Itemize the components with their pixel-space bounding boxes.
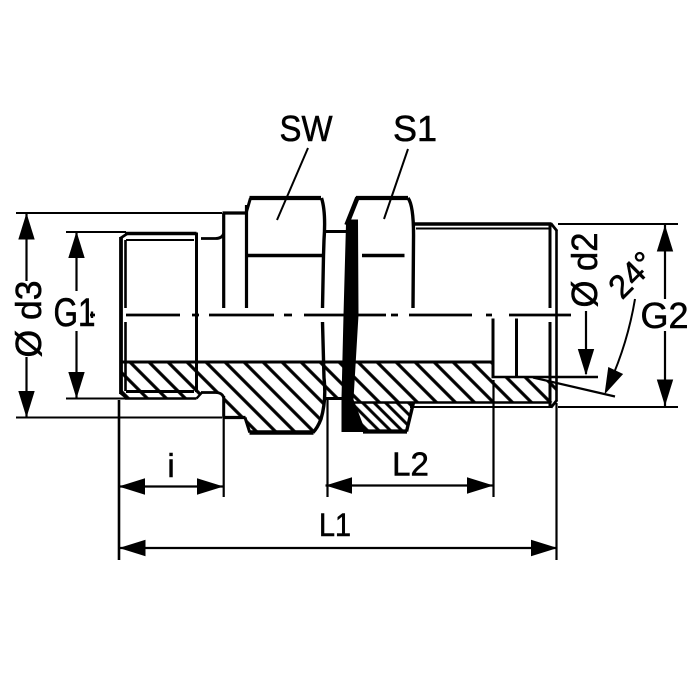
dimension d3 arrow down [18, 391, 34, 418]
thread G2 bottom end chamfer [551, 400, 557, 408]
thread G2 top end chamfer [551, 224, 557, 232]
dimension L1 line [119, 547, 558, 549]
dimension L1 extension right [555, 403, 557, 560]
leader S1 [384, 149, 408, 219]
thread G1 crest bottom [125, 397, 197, 399]
right end face [555, 230, 558, 401]
collar top edge [223, 211, 248, 214]
dimension i extension left [118, 400, 121, 560]
neck between hexes bottom [326, 397, 343, 400]
thread G1 runout chamfer bottom [197, 393, 203, 399]
thread G2 crest bottom [410, 406, 552, 408]
thread G1 crest top [125, 232, 197, 235]
hex SW left boundary [245, 205, 248, 308]
dimension d3 line [25, 213, 27, 418]
dimension G2 extension bottom [558, 406, 678, 408]
collar left face lower [222, 396, 225, 418]
nut S1 right edge lower [407, 403, 414, 432]
dimension d3 extension top [16, 212, 222, 214]
dimension i arrow left [119, 478, 146, 494]
svg-text:L1: L1 [319, 507, 351, 543]
nut S1 cone gap wedge [342, 220, 365, 433]
centerline start tick [91, 312, 93, 319]
dimension L2 arrow right [467, 477, 494, 493]
svg-text:S1: S1 [393, 108, 437, 149]
dimension i line [119, 485, 224, 487]
svg-text:SW: SW [280, 108, 333, 149]
cone 24 deg line extended [533, 378, 615, 397]
hex SW top-left corner chamfer [246, 198, 251, 214]
leader SW [277, 148, 308, 220]
svg-text:Ø d2: Ø d2 [564, 233, 605, 308]
dimension i arrow right [197, 478, 224, 494]
dimension L2 arrow left [326, 477, 353, 493]
dimension 24 deg arc [606, 299, 635, 391]
dimension L1 arrow right [531, 540, 558, 556]
section hatch nut S1 [354, 403, 414, 432]
dimension L2 extension left [326, 397, 328, 497]
left bottom chamfer [120, 393, 128, 399]
collar bottom edge [223, 416, 246, 419]
neck between hexes top [325, 230, 347, 233]
dimension L2 extension right [492, 380, 494, 497]
section hatch body [121, 362, 557, 433]
thread G1 chamfer circle [124, 240, 127, 391]
dimension d2 arrow down [578, 349, 594, 376]
bore step face 1 [492, 319, 495, 378]
left top chamfer [120, 234, 128, 239]
bore line left [121, 361, 492, 364]
svg-text:G2: G2 [640, 295, 688, 336]
nut S1 chamfer line [362, 254, 405, 258]
hex SW bottom edge [250, 430, 314, 434]
left end face [119, 237, 123, 394]
nut S1 left chamfer diagonal [347, 198, 358, 226]
thread G1 root bottom [126, 390, 194, 393]
nut S1 right edge upper [408, 198, 414, 308]
dimension d2 leader line [585, 311, 587, 374]
collar left face [222, 213, 225, 308]
hex SW chamfer line [247, 254, 322, 258]
dimension 24 deg arrow [597, 367, 623, 398]
bore step face 2 [515, 319, 518, 378]
centerline axis [90, 314, 571, 317]
dimension L2 line [326, 484, 494, 486]
dimension G2 extension top [558, 223, 678, 225]
nut S1 bottom edge [363, 429, 407, 433]
dimension G2 line [664, 225, 666, 406]
dimension G1 line [75, 232, 77, 399]
dimension G1 arrow up [68, 232, 84, 259]
svg-text:G1: G1 [54, 291, 96, 335]
hex SW bottom-left corner chamfer [245, 418, 250, 433]
thread G1 root top [126, 239, 194, 241]
dimension G1 extension bottom [66, 398, 126, 400]
dimension L1 arrow left [119, 540, 146, 556]
dimension d3 extension bottom [16, 417, 222, 419]
dimension i extension right [223, 419, 225, 497]
dimension G2 arrow down [657, 380, 673, 407]
hex SW right edge upper arc [322, 198, 325, 308]
hex SW top edge [250, 196, 322, 200]
bore line d2 with extension [492, 376, 599, 379]
thread G1 runout line [195, 233, 198, 393]
svg-text:Ø d3: Ø d3 [8, 281, 49, 358]
dimension d3 arrow up [18, 213, 34, 240]
thread G2 crest top [414, 222, 552, 225]
dimension G2 arrow up [657, 225, 673, 252]
thread G2 root top [416, 228, 549, 230]
nut S1 top edge [356, 196, 408, 200]
thread G2 end circle line [549, 225, 552, 406]
svg-text:L2: L2 [392, 446, 429, 483]
neck bottom line [201, 393, 224, 398]
thread G2 root bottom [353, 401, 549, 403]
svg-text:i: i [167, 447, 174, 484]
dimension G1 arrow down [68, 372, 84, 399]
neck top line [201, 234, 224, 239]
hex SW right edge lower arc [313, 322, 325, 433]
dimension G1 extension top [66, 231, 126, 233]
